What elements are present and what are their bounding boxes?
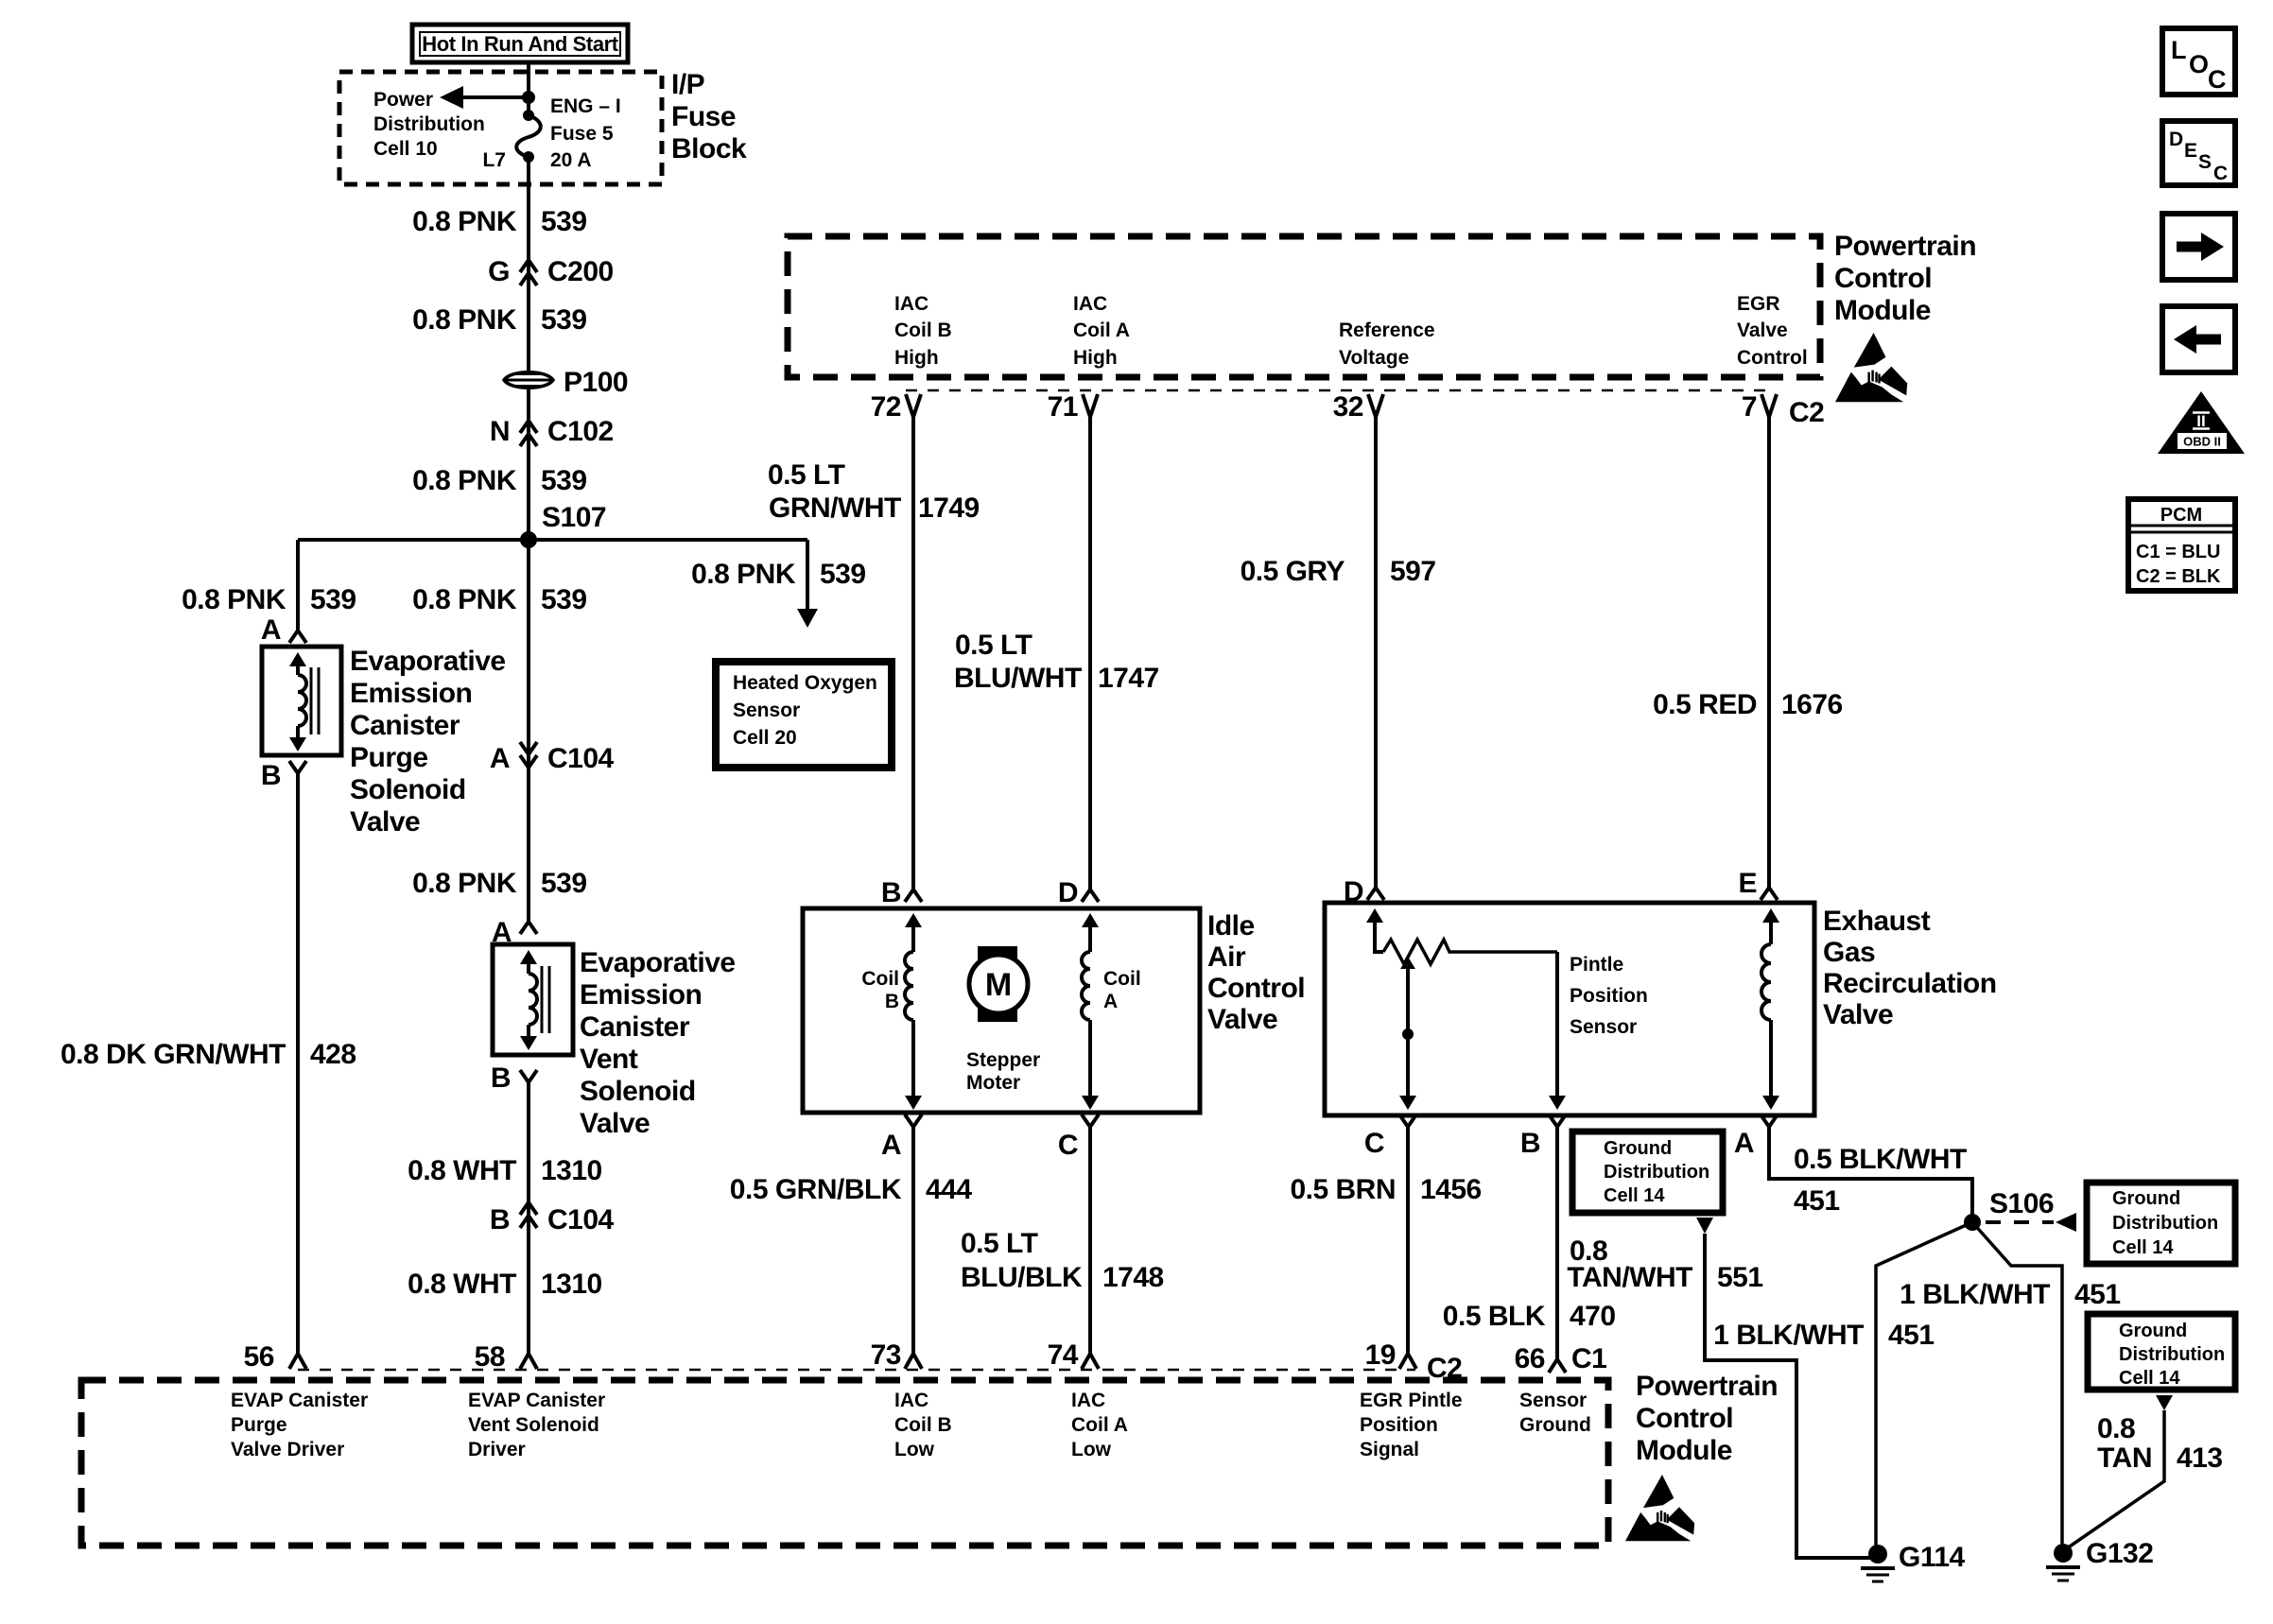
svg-text:C2 = BLK: C2 = BLK [2136, 566, 2221, 587]
back arrow icon [2162, 306, 2235, 372]
svg-text:Coil B: Coil B [894, 1414, 952, 1436]
svg-text:597: 597 [1390, 556, 1436, 587]
svg-text:539: 539 [541, 465, 587, 496]
svg-text:451: 451 [2074, 1279, 2121, 1310]
svg-text:Canister: Canister [350, 710, 460, 741]
wire - power distribution arrow [462, 95, 529, 99]
svg-text:0.8 PNK: 0.8 PNK [412, 465, 517, 496]
svg-text:II: II [2196, 412, 2205, 430]
svg-text:Stepper: Stepper [966, 1049, 1040, 1071]
wire - C200 to P100 [527, 273, 530, 371]
purge solenoid coil [289, 652, 306, 666]
svg-text:Distribution: Distribution [2119, 1344, 2225, 1365]
svg-text:Valve: Valve [1737, 320, 1788, 341]
svg-text:Distribution: Distribution [2112, 1213, 2218, 1234]
svg-text:Low: Low [894, 1439, 935, 1460]
svg-text:1748: 1748 [1102, 1262, 1164, 1293]
svg-text:Valve: Valve [1823, 999, 1893, 1030]
wire - 0.8 TAN/WHT 551 to G114 [1705, 1234, 1872, 1558]
svg-text:Hot In Run And Start: Hot In Run And Start [422, 32, 619, 56]
ground G114 [1868, 1545, 1887, 1564]
svg-text:S: S [2198, 151, 2212, 173]
svg-text:539: 539 [541, 584, 587, 615]
OBD II icon [2158, 391, 2245, 454]
wire - pin 71 to IAC pin D [1088, 417, 1092, 890]
svg-text:Cell 10: Cell 10 [373, 138, 438, 160]
svg-text:Heated Oxygen: Heated Oxygen [733, 672, 877, 694]
svg-text:M: M [985, 967, 1012, 1003]
wire - P100 to C102 [527, 389, 530, 434]
I/P fuse block dashed box [339, 72, 662, 184]
svg-text:1747: 1747 [1098, 663, 1159, 694]
svg-text:0.5 RED: 0.5 RED [1653, 689, 1757, 720]
ground distribution cell 14 box (sensor ground) [1572, 1132, 1723, 1213]
svg-text:High: High [1073, 347, 1118, 369]
heated oxygen sensor cell 20 box [716, 662, 892, 768]
svg-text:Reference: Reference [1339, 320, 1435, 341]
svg-text:470: 470 [1570, 1301, 1616, 1332]
svg-text:Valve: Valve [1207, 1004, 1277, 1035]
ground G132 [2054, 1544, 2073, 1563]
svg-text:ENG – I: ENG – I [550, 95, 621, 117]
svg-text:Air: Air [1207, 942, 1246, 973]
ground distribution cell 14 box (S106) [2087, 1183, 2235, 1264]
svg-text:Vent Solenoid: Vent Solenoid [468, 1414, 599, 1436]
wire - IAC pin A to PCM pin 73 [911, 1127, 915, 1354]
exhaust gas recirculation valve box [1325, 903, 1814, 1115]
svg-text:Fuse: Fuse [671, 101, 736, 132]
svg-text:C1: C1 [1571, 1343, 1606, 1374]
svg-text:Ground: Ground [1519, 1414, 1591, 1436]
svg-text:Gas: Gas [1823, 937, 1875, 968]
EGR pintle wiper [1400, 957, 1415, 969]
svg-text:Ground: Ground [2119, 1321, 2187, 1341]
svg-text:71: 71 [1048, 391, 1078, 423]
svg-text:Valve: Valve [350, 806, 420, 838]
svg-text:0.8 PNK: 0.8 PNK [412, 868, 517, 899]
svg-text:BLU/BLK: BLU/BLK [961, 1262, 1083, 1293]
wire - S107 horizontal bus [298, 538, 807, 542]
svg-text:Canister: Canister [580, 1011, 690, 1043]
svg-text:539: 539 [541, 868, 587, 899]
grommet P100 [504, 372, 553, 389]
connector C102 pin N (inline double chevron) [520, 421, 537, 433]
svg-text:Distribution: Distribution [373, 113, 485, 135]
wire - purge solenoid to PCM pin 56 [296, 773, 300, 1354]
wire - pin 32 to EGR pin D [1374, 417, 1378, 888]
IAC coil A winding [1082, 913, 1099, 927]
svg-text:IAC: IAC [894, 1390, 928, 1411]
svg-text:Pintle: Pintle [1570, 954, 1623, 976]
IAC coil B winding [905, 913, 922, 927]
svg-text:Sensor: Sensor [1570, 1016, 1637, 1038]
svg-text:B: B [261, 760, 281, 791]
svg-text:0.8 DK GRN/WHT: 0.8 DK GRN/WHT [61, 1039, 286, 1070]
svg-text:1 BLK/WHT: 1 BLK/WHT [1713, 1320, 1864, 1351]
svg-text:451: 451 [1888, 1320, 1935, 1351]
svg-text:0.8 WHT: 0.8 WHT [408, 1155, 516, 1186]
svg-text:G132: G132 [2086, 1538, 2153, 1569]
svg-text:E: E [2184, 140, 2197, 162]
wire - S107 to purge solenoid pin A [296, 540, 300, 631]
svg-text:Sensor: Sensor [1519, 1390, 1587, 1411]
svg-text:Position: Position [1360, 1414, 1438, 1436]
svg-text:Control: Control [1636, 1403, 1733, 1434]
svg-text:D: D [1058, 877, 1078, 908]
svg-text:GRN/WHT: GRN/WHT [769, 492, 901, 524]
ground distribution cell 14 box (G132) [2088, 1314, 2235, 1390]
svg-text:EGR Pintle: EGR Pintle [1360, 1390, 1463, 1411]
svg-text:TAN: TAN [2097, 1443, 2152, 1474]
svg-text:0.8 PNK: 0.8 PNK [412, 206, 517, 237]
svg-text:Evaporative: Evaporative [580, 947, 736, 978]
LOC icon [2162, 28, 2235, 95]
powertrain control module (bottom) dashed box [81, 1380, 1608, 1546]
svg-text:Solenoid: Solenoid [350, 774, 466, 805]
svg-text:Exhaust: Exhaust [1823, 906, 1931, 937]
svg-text:551: 551 [1717, 1262, 1763, 1293]
powertrain control module (top) dashed box [788, 236, 1820, 377]
svg-text:Idle: Idle [1207, 910, 1255, 942]
idle air control valve box [803, 908, 1200, 1113]
svg-text:66: 66 [1515, 1343, 1545, 1374]
svg-text:Coil: Coil [861, 968, 899, 990]
connector C104 pin A (inline double chevron down) [520, 742, 537, 754]
svg-text:444: 444 [926, 1174, 972, 1205]
svg-text:539: 539 [310, 584, 356, 615]
IAC stepper motor M [978, 946, 1017, 1022]
svg-text:Signal: Signal [1360, 1439, 1419, 1460]
svg-text:Powertrain: Powertrain [1834, 231, 1976, 262]
svg-text:IAC: IAC [1071, 1390, 1105, 1411]
wire - EGR pin B to PCM pin 66 [1555, 1127, 1559, 1359]
svg-text:Moter: Moter [966, 1072, 1020, 1094]
svg-text:Purge: Purge [231, 1414, 287, 1436]
wire - C104 to PCM pin 58 [527, 1216, 530, 1354]
svg-text:IAC: IAC [1073, 293, 1107, 315]
svg-text:0.5 LT: 0.5 LT [955, 630, 1032, 661]
svg-text:B: B [491, 1063, 511, 1094]
svg-text:0.8: 0.8 [2097, 1413, 2135, 1444]
svg-text:73: 73 [871, 1339, 901, 1371]
svg-text:428: 428 [310, 1039, 356, 1070]
svg-text:Power: Power [373, 89, 433, 111]
svg-text:539: 539 [820, 559, 866, 590]
svg-text:7: 7 [1742, 391, 1757, 423]
svg-text:Control: Control [1834, 263, 1932, 294]
svg-text:Emission: Emission [580, 979, 702, 1011]
svg-text:Evaporative: Evaporative [350, 646, 506, 677]
svg-text:Control: Control [1737, 347, 1808, 369]
svg-text:0.8 PNK: 0.8 PNK [691, 559, 796, 590]
svg-text:1676: 1676 [1781, 689, 1843, 720]
svg-text:72: 72 [871, 391, 901, 423]
svg-text:0.8 PNK: 0.8 PNK [412, 584, 517, 615]
svg-text:1310: 1310 [541, 1155, 602, 1186]
svg-text:B: B [490, 1204, 510, 1235]
ESD sensitive symbol (top PCM) [1835, 333, 1907, 402]
svg-text:N: N [490, 416, 510, 447]
svg-text:C: C [2208, 65, 2227, 94]
svg-text:Position: Position [1570, 985, 1648, 1007]
wire - vent solenoid to C104 pin B [527, 1082, 530, 1219]
svg-text:0.5 GRN/BLK: 0.5 GRN/BLK [730, 1174, 902, 1205]
svg-text:C104: C104 [547, 743, 615, 774]
svg-text:EVAP Canister: EVAP Canister [468, 1390, 605, 1411]
power source box 'Hot In Run And Start' [412, 25, 628, 62]
EGR pintle position sensor resistor [1366, 908, 1383, 923]
connector C104 pin B (inline double chevron up) [520, 1202, 537, 1215]
svg-text:O: O [2189, 50, 2209, 78]
svg-text:0.5 BLK/WHT: 0.5 BLK/WHT [1794, 1144, 1967, 1175]
svg-text:56: 56 [244, 1341, 274, 1373]
wire - S106 left branch to G114 [1876, 1222, 1972, 1554]
svg-text:IAC: IAC [894, 293, 928, 315]
svg-text:G: G [488, 256, 510, 287]
svg-text:Ground: Ground [2112, 1188, 2180, 1209]
svg-text:20 A: 20 A [550, 149, 592, 171]
svg-text:PCM: PCM [2160, 505, 2202, 526]
svg-text:Coil A: Coil A [1071, 1414, 1128, 1436]
svg-text:BLU/WHT: BLU/WHT [954, 663, 1082, 694]
splice S106 junction [1964, 1214, 1981, 1231]
svg-text:Coil A: Coil A [1073, 320, 1130, 341]
svg-text:0.5 BLK: 0.5 BLK [1443, 1301, 1546, 1332]
svg-text:D: D [2169, 129, 2183, 150]
svg-text:Powertrain: Powertrain [1636, 1371, 1778, 1402]
wire - pin 72 to IAC pin B [911, 417, 915, 890]
svg-text:C104: C104 [547, 1204, 615, 1235]
svg-text:G114: G114 [1899, 1542, 1966, 1573]
bottom PCM connector face (thin dashed line) [298, 1369, 1415, 1372]
svg-text:413: 413 [2177, 1443, 2223, 1474]
fuse F5 ENG-I 20A symbol [523, 110, 534, 121]
ESD sensitive symbol (bottom PCM) [1625, 1475, 1694, 1541]
EGR solenoid coil [1762, 908, 1779, 923]
svg-text:Voltage: Voltage [1339, 347, 1409, 369]
svg-text:TAN/WHT: TAN/WHT [1567, 1262, 1692, 1293]
svg-text:OBD II: OBD II [2183, 435, 2221, 449]
svg-text:Purge: Purge [350, 742, 428, 773]
ground distribution link triangle (413) [2156, 1395, 2173, 1410]
svg-text:B: B [885, 991, 899, 1012]
svg-text:A: A [490, 743, 510, 774]
svg-text:EVAP Canister: EVAP Canister [231, 1390, 368, 1411]
svg-text:Cell 14: Cell 14 [2119, 1368, 2180, 1389]
svg-text:A: A [1103, 991, 1118, 1012]
wire - EGR pin A to splice S106 [1769, 1127, 1972, 1219]
svg-text:0.8 PNK: 0.8 PNK [182, 584, 286, 615]
svg-text:Coil B: Coil B [894, 320, 952, 341]
svg-text:EGR: EGR [1737, 293, 1780, 315]
svg-text:S106: S106 [1989, 1188, 2054, 1219]
svg-text:Coil: Coil [1103, 968, 1141, 990]
svg-text:Module: Module [1834, 295, 1931, 326]
svg-text:Cell 20: Cell 20 [733, 727, 797, 749]
wire - battery feed into fuse block [527, 62, 530, 115]
wire - EGR pin C to PCM pin 19 [1406, 1127, 1410, 1354]
svg-text:A: A [1734, 1128, 1754, 1159]
svg-text:A: A [881, 1130, 901, 1161]
EVAP canister purge solenoid valve box [262, 647, 341, 755]
svg-text:1310: 1310 [541, 1269, 602, 1300]
svg-text:L7: L7 [482, 149, 506, 171]
svg-text:C1 = BLU: C1 = BLU [2136, 542, 2220, 562]
svg-text:C102: C102 [547, 416, 614, 447]
svg-text:C: C [1364, 1128, 1384, 1159]
svg-text:0.5 LT: 0.5 LT [768, 459, 845, 491]
connector C200 pin G (inline double chevron) [520, 260, 537, 272]
EVAP canister vent solenoid valve box [493, 944, 573, 1055]
svg-text:Sensor: Sensor [733, 700, 800, 721]
svg-text:0.5 GRY: 0.5 GRY [1241, 556, 1345, 587]
ground distribution link triangle (551) [1696, 1218, 1713, 1234]
node - fuse block feed junction [522, 91, 535, 104]
svg-text:74: 74 [1048, 1339, 1079, 1371]
svg-text:1749: 1749 [918, 492, 980, 524]
svg-text:58: 58 [475, 1341, 505, 1373]
DESC icon [2162, 121, 2235, 185]
svg-text:L: L [2171, 36, 2187, 64]
svg-text:32: 32 [1333, 391, 1363, 423]
svg-text:1456: 1456 [1420, 1174, 1482, 1205]
wire - S106 right branch to G132 [1972, 1222, 2062, 1550]
wire - S107 to heated oxygen sensor cell [806, 540, 809, 611]
svg-text:P100: P100 [564, 367, 628, 398]
svg-text:0.8 WHT: 0.8 WHT [408, 1269, 516, 1300]
svg-text:Driver: Driver [468, 1439, 526, 1460]
svg-text:C: C [2213, 163, 2228, 184]
svg-text:Cell 14: Cell 14 [1604, 1185, 1665, 1206]
svg-text:Distribution: Distribution [1604, 1162, 1709, 1183]
splice S107 junction [520, 531, 537, 548]
wire - IAC pin C to PCM pin 74 [1088, 1127, 1092, 1354]
wire - C102 to S107 [527, 434, 530, 540]
svg-text:Vent: Vent [580, 1044, 638, 1075]
svg-text:0.8 PNK: 0.8 PNK [412, 304, 517, 336]
svg-text:Solenoid: Solenoid [580, 1076, 696, 1107]
svg-text:Valve: Valve [580, 1108, 650, 1139]
svg-text:0.5 BRN: 0.5 BRN [1290, 1174, 1396, 1205]
svg-text:Cell 14: Cell 14 [2112, 1237, 2174, 1258]
svg-text:C200: C200 [547, 256, 614, 287]
svg-text:539: 539 [541, 206, 587, 237]
svg-text:Recirculation: Recirculation [1823, 968, 1997, 999]
forward arrow icon [2162, 214, 2235, 280]
svg-text:C2: C2 [1789, 397, 1824, 428]
wire - C104 to vent solenoid pin A [527, 768, 530, 922]
svg-text:1 BLK/WHT: 1 BLK/WHT [1900, 1279, 2050, 1310]
wire - S107 to C104 pin A [527, 540, 530, 768]
vent solenoid coil [520, 950, 537, 964]
svg-text:19: 19 [1365, 1339, 1396, 1371]
svg-text:I/P: I/P [671, 69, 704, 100]
svg-text:Block: Block [671, 133, 747, 164]
svg-text:451: 451 [1794, 1185, 1840, 1217]
svg-text:High: High [894, 347, 939, 369]
PCM connector legend box [2128, 499, 2235, 591]
svg-text:Low: Low [1071, 1439, 1112, 1460]
svg-text:0.5 LT: 0.5 LT [961, 1228, 1038, 1259]
svg-text:Ground: Ground [1604, 1138, 1672, 1159]
svg-text:Emission: Emission [350, 678, 472, 709]
svg-text:Module: Module [1636, 1435, 1732, 1466]
svg-text:E: E [1738, 868, 1757, 899]
svg-text:B: B [1520, 1128, 1540, 1159]
svg-text:S107: S107 [542, 502, 606, 533]
S106 dashed reference to ground distribution [1986, 1220, 2054, 1224]
svg-text:B: B [881, 877, 901, 908]
wire - 0.8 TAN 413 to G132 [2067, 1410, 2164, 1548]
svg-text:Fuse 5: Fuse 5 [550, 123, 614, 145]
wire - fuse to C200 [527, 157, 530, 273]
svg-text:Valve Driver: Valve Driver [231, 1439, 344, 1460]
svg-text:Control: Control [1207, 973, 1305, 1004]
svg-text:A: A [261, 614, 281, 646]
svg-text:C: C [1058, 1130, 1078, 1161]
wire - pin 7 to EGR pin E [1767, 417, 1771, 888]
svg-text:539: 539 [541, 304, 587, 336]
top PCM connector face (thin dashed line) [906, 389, 1776, 392]
